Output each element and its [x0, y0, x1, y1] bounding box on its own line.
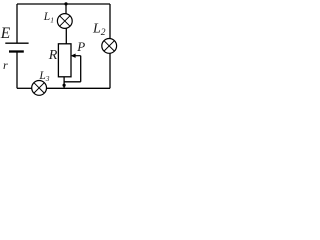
wire resistor bottom lead	[63, 77, 65, 89]
svg-text:R: R	[48, 48, 58, 63]
wire bottom side right segment	[47, 87, 111, 89]
wiper arrow P	[71, 54, 81, 58]
svg-text:L1: L1	[43, 11, 54, 24]
battery short thick plate	[9, 50, 24, 52]
svg-text:L2: L2	[92, 22, 106, 38]
resistor R box	[58, 44, 71, 77]
wire right side lower	[109, 53, 111, 88]
wire wiper vertical	[80, 56, 82, 82]
node junction dot on resistor lead	[63, 84, 66, 87]
wire L1 to resistor	[65, 28, 67, 44]
wire left side upper (to battery)	[16, 4, 18, 43]
node junction dot on top wire	[64, 2, 67, 5]
wire right side upper	[109, 4, 111, 39]
svg-text:E: E	[0, 25, 11, 42]
lamp L3	[32, 81, 47, 96]
wire wiper connector to lead	[64, 81, 81, 83]
wire top side	[17, 3, 110, 5]
svg-text:P: P	[76, 39, 85, 54]
wire L1 branch from top node	[65, 4, 67, 14]
svg-text:L3: L3	[38, 70, 49, 83]
lamp L2	[102, 39, 117, 54]
wire bottom side left segment	[17, 87, 32, 89]
wire left side lower	[16, 52, 18, 89]
battery E long plate	[5, 42, 28, 44]
lamp L1	[57, 14, 72, 29]
svg-text:r: r	[3, 58, 8, 72]
